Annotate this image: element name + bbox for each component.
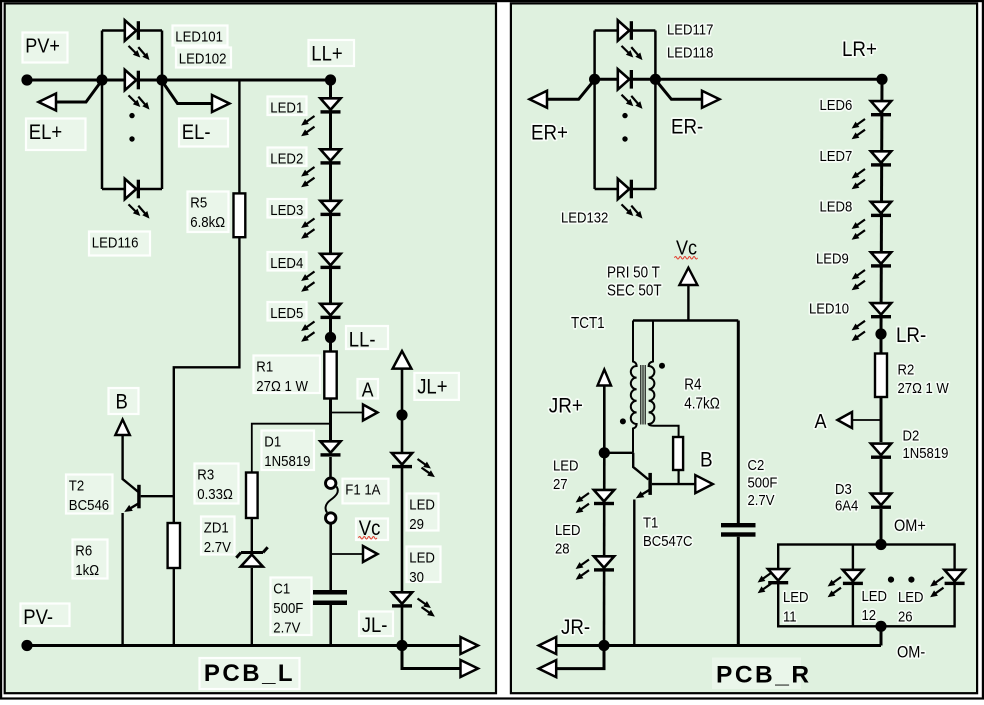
wire T1 collector: [633, 453, 648, 480]
wire LR- to R2: [880, 334, 883, 354]
svg-text:ZD1: ZD1: [204, 518, 229, 535]
wire node A branch right panel: [853, 419, 882, 421]
svg-text:LL+: LL+: [311, 42, 342, 65]
label OM-: [897, 644, 925, 662]
connector A arrow right panel: [838, 412, 853, 428]
LED LED6: [852, 101, 892, 139]
svg-text:BC547C: BC547C: [643, 532, 693, 549]
node junction dot ER-: [650, 74, 661, 85]
svg-text:12: 12: [862, 606, 877, 623]
wire PV- rail: [27, 644, 402, 647]
label LED10: [809, 300, 849, 317]
transformer polarity dot primary: [620, 418, 626, 424]
svg-text:1N5819: 1N5819: [903, 444, 949, 461]
label LL-: [346, 326, 388, 352]
LED LED116: [125, 179, 150, 219]
svg-text:F1 1A: F1 1A: [345, 481, 381, 498]
label D2 1N5819: [903, 427, 949, 461]
svg-text:B: B: [116, 390, 128, 413]
wire right LED block left vertical: [593, 31, 596, 190]
transistor T1 base bar: [648, 473, 652, 495]
node junction dot right LED block -: [156, 74, 167, 85]
svg-text:T2: T2: [69, 476, 85, 493]
svg-text:C1: C1: [273, 579, 290, 596]
svg-text:2.7V: 2.7V: [748, 491, 776, 508]
svg-text:BC546: BC546: [69, 496, 109, 513]
svg-text:OM-: OM-: [897, 644, 925, 662]
svg-text:2.7V: 2.7V: [273, 618, 301, 635]
svg-text:LED4: LED4: [270, 254, 303, 271]
svg-text:LED7: LED7: [820, 147, 853, 164]
LED LED118: [618, 69, 643, 109]
wire JR+ to dot: [603, 385, 606, 453]
wire node Vc branch left panel: [331, 553, 364, 555]
connector JL- output arrow 2: [402, 646, 478, 678]
LED LED132: [618, 179, 643, 219]
wire LED string LL: [329, 80, 332, 338]
label T1 BC547C: [643, 514, 693, 549]
wire OM- to rail: [880, 626, 883, 645]
node JL- dot: [396, 640, 407, 651]
svg-text:JL-: JL-: [362, 614, 388, 637]
node junction dot ER+: [589, 74, 600, 85]
label LED6: [820, 96, 853, 113]
resistor R6: [168, 523, 180, 568]
wire R2 to D2: [880, 397, 883, 442]
capacitor C2: [721, 523, 756, 537]
wire R3 branch horizontal: [252, 424, 331, 473]
label PCB_L: [200, 658, 300, 689]
connector JL+ arrow: [393, 351, 412, 369]
label LED8: [820, 198, 853, 215]
svg-text:LED2: LED2: [270, 149, 303, 166]
svg-text:T1: T1: [643, 514, 658, 531]
svg-text:PV+: PV+: [25, 35, 60, 57]
svg-text:LED: LED: [409, 548, 435, 565]
node OM+ dot: [875, 539, 886, 550]
svg-text:2.7V: 2.7V: [204, 538, 232, 555]
wire R5 bottom lead to base chain: [174, 237, 240, 523]
svg-text:C2: C2: [748, 456, 765, 473]
wire C2 bottom lead: [737, 537, 740, 646]
label LED9: [816, 250, 849, 267]
svg-text:1N5819: 1N5819: [264, 452, 310, 469]
label LED132: [561, 209, 609, 226]
svg-text:LED10: LED10: [809, 300, 849, 317]
LED LED3: [301, 201, 341, 239]
LED LED102: [125, 70, 150, 110]
transistor T2 collector wire from B: [123, 435, 138, 492]
resistor R1: [324, 352, 336, 399]
connector ER- arrow and wire: [656, 80, 720, 108]
ellipsis dots right LED block: [622, 113, 627, 142]
wire C1 to rail: [329, 605, 332, 646]
svg-text:JR-: JR-: [561, 616, 590, 639]
label C1 500F 2.7V: [271, 578, 312, 636]
svg-text:LR+: LR+: [842, 38, 877, 61]
transistor T2 base bar: [137, 485, 141, 509]
svg-text:LED132: LED132: [561, 209, 609, 226]
wire T1 base lead to B: [652, 483, 695, 485]
svg-text:LED3: LED3: [270, 201, 303, 218]
label OM+: [894, 517, 926, 535]
diode D3: [871, 494, 891, 509]
label C2 500F 2.7V: [748, 456, 778, 508]
svg-text:A: A: [815, 411, 827, 433]
label PCB_R: [712, 658, 812, 690]
svg-text:LED: LED: [898, 588, 923, 605]
label R2 27ohm: [898, 361, 950, 396]
svg-text:R6: R6: [75, 541, 92, 558]
svg-text:EL-: EL-: [182, 121, 211, 144]
wire LED116 row: [102, 188, 162, 191]
capacitor C1: [313, 590, 347, 605]
LED LED4: [301, 254, 341, 292]
node LL- dot: [325, 332, 336, 343]
label Vc right panel: [675, 238, 698, 260]
svg-text:EL+: EL+: [29, 121, 62, 144]
label LR-: [896, 324, 926, 347]
svg-text:PCB_L: PCB_L: [204, 660, 295, 687]
wire node A branch left: [331, 412, 364, 414]
wire D3 to OM+: [880, 509, 883, 545]
svg-text:11: 11: [783, 608, 797, 625]
wire LL- to R1: [329, 338, 332, 352]
svg-text:LED5: LED5: [270, 304, 303, 321]
svg-text:D3: D3: [835, 480, 852, 497]
label JR+: [549, 394, 583, 417]
svg-text:27Ω 1 W: 27Ω 1 W: [256, 377, 308, 394]
svg-text:TCT1: TCT1: [571, 315, 605, 332]
wire LED12 middle branch: [852, 545, 854, 627]
resistor R4: [673, 437, 683, 470]
wire Vc to transformer top: [687, 285, 689, 321]
label LED 28: [555, 521, 580, 556]
LED LED11: [758, 569, 789, 593]
wire R1 to D1: [329, 399, 332, 441]
label LED3: [268, 199, 307, 218]
connector ER+ arrow and wire: [530, 80, 595, 108]
LED LED1: [301, 98, 341, 136]
wire parallel LED block right vertical: [161, 31, 164, 190]
wire LED101 row: [102, 29, 162, 32]
LED LED5: [301, 304, 341, 342]
svg-text:LED117: LED117: [667, 21, 714, 38]
label R4 4.7k: [684, 377, 720, 413]
label JR-: [561, 616, 590, 639]
label LED 12: [862, 587, 887, 623]
svg-text:27: 27: [553, 475, 568, 492]
svg-text:LED: LED: [553, 457, 578, 474]
svg-text:30: 30: [409, 568, 424, 585]
node PV+ terminal dot: [21, 74, 32, 85]
svg-text:A: A: [362, 378, 374, 400]
label PRI 50 T: [607, 265, 660, 282]
svg-text:28: 28: [555, 540, 570, 557]
svg-text:JR+: JR+: [549, 394, 583, 417]
resistor R2: [875, 354, 887, 398]
wire fuse to C1: [329, 523, 332, 590]
svg-text:500F: 500F: [748, 474, 778, 491]
connector B arrow left panel: [115, 420, 130, 436]
svg-text:ER+: ER+: [531, 121, 568, 144]
node JL+ junction dot: [396, 409, 407, 420]
label JL-: [359, 612, 393, 638]
LED LED10: [852, 303, 892, 341]
wire LED117 row: [595, 29, 656, 32]
LED LED26: [930, 570, 965, 597]
node OM- dot: [875, 621, 886, 632]
label LED1: [268, 97, 307, 116]
svg-text:1kΩ: 1kΩ: [75, 561, 99, 578]
wire LED string LR upper: [881, 79, 882, 334]
LED LED2: [301, 149, 341, 187]
label LED5: [268, 302, 307, 321]
wire R6 to rail: [173, 568, 175, 646]
label LED 30: [407, 547, 441, 585]
wire right LED block right vertical: [654, 31, 657, 190]
wire T2 base lead: [141, 495, 174, 497]
svg-text:LED6: LED6: [820, 96, 853, 113]
label Vc left panel: [356, 517, 388, 540]
connector JR+ arrow: [598, 370, 612, 386]
label A right panel: [815, 411, 827, 433]
label EL-: [179, 119, 228, 147]
ellipsis dots LED block left: [129, 113, 134, 142]
svg-text:R5: R5: [190, 193, 207, 210]
svg-text:D2: D2: [903, 427, 920, 444]
label ER+: [531, 121, 568, 144]
svg-text:29: 29: [409, 515, 424, 532]
svg-text:0.33Ω: 0.33Ω: [197, 485, 233, 502]
svg-text:R2: R2: [898, 361, 915, 378]
wire JL string upper: [401, 415, 404, 591]
label A left panel: [358, 378, 379, 400]
transformer TCT1 primary winding: [631, 321, 637, 453]
svg-text:OM+: OM+: [894, 517, 926, 535]
diode D2: [871, 444, 891, 459]
wire R3 to ZD1: [251, 518, 253, 551]
LED LED7: [852, 151, 892, 189]
svg-text:R4: R4: [684, 377, 701, 394]
connector JR- output arrow 2: [539, 646, 604, 678]
label D3 6A4: [835, 480, 858, 513]
wire PV+ main horizontal: [27, 79, 331, 82]
wire JR string LEDs: [603, 453, 606, 646]
svg-text:LED: LED: [783, 588, 808, 605]
svg-text:LED8: LED8: [820, 198, 853, 215]
connector EL- arrow and wire: [162, 81, 230, 112]
svg-text:LED101: LED101: [175, 27, 223, 44]
svg-text:PRI 50 T: PRI 50 T: [607, 265, 660, 282]
LED LED8: [852, 202, 892, 240]
svg-text:R3: R3: [197, 465, 214, 482]
label T2 BC546: [66, 475, 113, 514]
svg-text:LED116: LED116: [92, 233, 139, 250]
label LED 29: [407, 494, 439, 532]
wire LED30 to JL- dot: [401, 608, 404, 646]
transformer TCT1 core: [641, 365, 645, 425]
parallel LED box outline: [778, 545, 954, 627]
LED LED9: [852, 252, 892, 290]
svg-text:LED102: LED102: [179, 49, 227, 66]
svg-text:D1: D1: [264, 432, 281, 449]
svg-text:SEC 50T: SEC 50T: [607, 283, 662, 300]
label LED102: [176, 48, 231, 68]
wire R4 to base line: [677, 470, 679, 484]
zener diode ZD1: [236, 547, 267, 645]
label R6 1k: [73, 540, 108, 579]
transformer polarity dot secondary: [659, 363, 665, 369]
svg-text:LR-: LR-: [896, 324, 926, 347]
svg-text:B: B: [700, 448, 713, 471]
node LR+ dot: [876, 74, 887, 85]
connector EL+ arrow and wire: [39, 81, 102, 111]
wire R5 top lead: [238, 80, 240, 193]
svg-text:6A4: 6A4: [835, 497, 858, 514]
label D1 1N5819: [262, 431, 315, 471]
wire D2 to D3: [880, 459, 883, 492]
svg-text:27Ω 1 W: 27Ω 1 W: [898, 379, 950, 396]
connector JL- output arrow 1: [402, 637, 478, 654]
svg-text:500F: 500F: [273, 599, 303, 616]
label PV+: [23, 33, 68, 63]
node JR- dot: [598, 640, 609, 651]
label PV-: [21, 604, 70, 630]
LED LED30: [392, 592, 435, 616]
wire JL+ to dot: [401, 369, 404, 415]
label LED 26: [898, 588, 923, 624]
resistor R3: [246, 473, 258, 519]
ellipsis dots LED box: [888, 577, 915, 583]
svg-text:LED: LED: [409, 495, 435, 512]
label LED116: [89, 232, 150, 256]
label ER-: [671, 115, 703, 138]
label LED2: [268, 148, 307, 167]
node JR+ junction dot: [599, 447, 610, 458]
label R5 6.8k: [188, 192, 229, 233]
svg-text:LED: LED: [555, 521, 580, 538]
svg-text:26: 26: [898, 608, 913, 625]
label LED101: [173, 26, 228, 46]
label B left panel: [109, 388, 139, 414]
svg-text:R1: R1: [256, 357, 273, 374]
connector Vc arrow left panel: [363, 546, 378, 562]
wire C2 top lead: [737, 321, 740, 524]
wire D1 to fuse: [329, 457, 332, 477]
label R1 27ohm: [254, 356, 321, 394]
wire ER main horizontal: [595, 78, 882, 81]
connector B arrow right panel: [695, 475, 713, 493]
svg-text:LED1: LED1: [270, 98, 303, 115]
LED LED27: [576, 490, 615, 513]
svg-text:6.8kΩ: 6.8kΩ: [190, 213, 225, 230]
label LR+: [842, 38, 877, 61]
wire JR- rail: [555, 644, 881, 647]
node junction dot left LED block +: [96, 74, 107, 85]
panel PCB_R background: [511, 3, 977, 693]
svg-text:PV-: PV-: [23, 606, 53, 629]
label LED 27: [553, 457, 578, 492]
label JL+: [414, 373, 459, 400]
LED LED101: [125, 20, 150, 60]
transistor T1 emitter: [634, 490, 650, 646]
label B right panel: [700, 448, 713, 471]
wire LED132 row: [595, 188, 656, 191]
label LED 11: [783, 588, 808, 624]
connector Vc arrow right panel: [679, 268, 697, 285]
LED LED28: [576, 556, 615, 579]
panel PCB_L background: [5, 3, 496, 693]
node PV- terminal dot: [21, 640, 32, 651]
transistor T2 emitter: [123, 503, 139, 645]
label LED118: [667, 44, 714, 61]
svg-text:LL-: LL-: [349, 328, 376, 351]
wire collector link JR+ to T1: [604, 452, 633, 454]
wire parallel LED block left vertical: [101, 31, 104, 190]
LED LED12: [828, 570, 864, 597]
svg-text:LED9: LED9: [816, 250, 849, 267]
LED LED29: [392, 453, 435, 477]
svg-text:PCB_R: PCB_R: [716, 662, 812, 689]
svg-text:LED118: LED118: [667, 44, 714, 61]
connector A arrow left panel: [363, 405, 378, 421]
svg-text:LED: LED: [862, 587, 887, 604]
label LED117: [667, 21, 714, 38]
label TCT1: [571, 315, 605, 332]
fuse F1: [326, 478, 338, 523]
node LL+ dot: [325, 74, 336, 85]
label LED4: [268, 252, 307, 271]
node LR- dot: [875, 328, 886, 339]
wire transformer top horizontal: [633, 319, 738, 321]
svg-text:4.7kΩ: 4.7kΩ: [684, 396, 720, 413]
label ZD1 2.7V: [201, 517, 235, 555]
label F1 1A: [343, 479, 389, 504]
label LED7: [820, 147, 853, 164]
resistor R5: [234, 193, 246, 237]
diode D1: [320, 441, 340, 456]
LED LED117: [618, 20, 643, 60]
label EL+: [26, 119, 86, 151]
label LL+: [309, 40, 355, 66]
connector JR- output arrow 1: [539, 637, 557, 654]
svg-text:ER-: ER-: [671, 115, 703, 138]
label R3 0.33ohm: [195, 464, 239, 504]
label SEC 50T: [607, 283, 662, 300]
transformer TCT1 secondary winding: [649, 321, 679, 438]
svg-text:JL+: JL+: [417, 375, 447, 398]
